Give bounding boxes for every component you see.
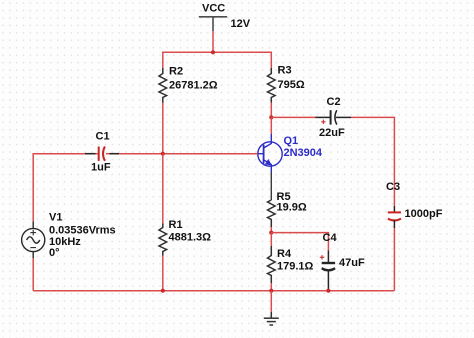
svg-text:0.03536Vrms: 0.03536Vrms <box>49 225 116 237</box>
svg-text:19.9Ω: 19.9Ω <box>277 202 307 214</box>
ground <box>264 312 279 325</box>
svg-text:1uF: 1uF <box>91 161 111 173</box>
svg-text:R3: R3 <box>278 65 292 77</box>
svg-text:795Ω: 795Ω <box>278 79 305 91</box>
svg-text:Q1: Q1 <box>284 135 299 147</box>
wire C2 right <box>351 116 394 118</box>
wire C3 bottom <box>393 228 395 291</box>
svg-text:VCC: VCC <box>202 2 225 14</box>
node collector junction <box>269 115 273 119</box>
svg-text:1000pF: 1000pF <box>405 208 443 220</box>
node ground junction <box>269 289 273 293</box>
wire left drop <box>32 153 34 222</box>
wire ground drop <box>270 291 272 312</box>
source V1 <box>22 222 45 259</box>
wire R3 top <box>270 52 272 69</box>
node emitter junction <box>269 231 273 235</box>
resistor R3 <box>268 68 276 103</box>
resistor R4 <box>268 246 276 283</box>
svg-text:R1: R1 <box>169 219 183 231</box>
capacitor C2 <box>316 110 352 124</box>
svg-text:R4: R4 <box>277 248 292 260</box>
wire R4 bottom <box>270 283 272 291</box>
wire C4 drop <box>327 232 329 251</box>
svg-text:C2: C2 <box>327 96 341 108</box>
wire C4 top rail <box>271 232 328 234</box>
wire V1 bottom <box>32 258 34 291</box>
wire R3 bottom <box>270 103 272 118</box>
resistor R1 <box>159 224 167 256</box>
node VCC junction <box>211 50 215 54</box>
svg-text:2N3904: 2N3904 <box>284 147 323 159</box>
svg-text:4881.3Ω: 4881.3Ω <box>169 231 212 243</box>
resistor R5 <box>268 200 276 227</box>
wire R1 bottom <box>162 256 164 291</box>
node R1 ground junction <box>161 289 165 293</box>
wire emitter to R5 <box>270 172 272 200</box>
wire base rail <box>119 153 258 155</box>
svg-text:47uF: 47uF <box>339 257 365 269</box>
svg-text:R2: R2 <box>169 66 183 78</box>
polarity marks V1 <box>30 230 36 248</box>
wire R2 bottom <box>162 103 164 154</box>
svg-text:179.1Ω: 179.1Ω <box>277 261 314 273</box>
wire top rail <box>163 51 271 53</box>
svg-text:C4: C4 <box>323 232 338 244</box>
wire R2 top <box>162 52 164 69</box>
resistor R2 <box>159 68 167 103</box>
wire C2 left <box>271 116 316 118</box>
wire bottom rail <box>33 290 394 292</box>
capacitor C4 <box>322 251 335 291</box>
capacitor C3 <box>388 206 401 228</box>
wire collector drop <box>270 117 272 134</box>
svg-text:22uF: 22uF <box>319 127 345 139</box>
polarity plus C2 <box>321 120 325 124</box>
wire VCC drop <box>212 31 214 52</box>
polarity plus C4 <box>320 255 324 259</box>
power symbol VCC <box>199 17 227 31</box>
transistor Q1 <box>258 134 282 172</box>
wire R1 top <box>162 154 164 224</box>
node base junction <box>161 152 165 156</box>
wire R4 top <box>270 233 272 246</box>
svg-text:0°: 0° <box>49 247 60 259</box>
svg-text:26781.2Ω: 26781.2Ω <box>169 79 218 91</box>
svg-text:C3: C3 <box>386 181 400 193</box>
wire right drop <box>393 117 395 206</box>
emitter arrow Q1 <box>265 159 272 166</box>
svg-text:C1: C1 <box>96 130 110 142</box>
capacitor C1 <box>84 147 119 161</box>
wire C1 left <box>33 153 84 155</box>
node C4 junction <box>326 289 330 293</box>
svg-text:10kHz: 10kHz <box>49 236 81 248</box>
svg-text:12V: 12V <box>231 18 251 30</box>
wire R5 bottom <box>270 227 272 233</box>
svg-text:V1: V1 <box>49 211 62 223</box>
